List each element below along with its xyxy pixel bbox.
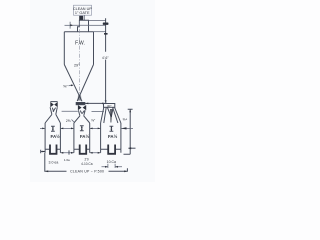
svg-text:29°: 29° bbox=[74, 63, 80, 67]
hopper 3 tent roof bbox=[101, 107, 121, 123]
svg-text:FA½: FA½ bbox=[80, 134, 90, 139]
lower dim row y152.8 bbox=[41, 150, 46, 153]
hopper 1 bottom slot bbox=[45, 148, 60, 150]
gate neck outline bbox=[79, 20, 88, 32]
leader from label to gate bbox=[83, 15, 85, 20]
hopper 1 neck bbox=[50, 107, 57, 114]
right dim column at h3 bbox=[124, 109, 133, 154]
discharge box under cone bbox=[76, 102, 85, 105]
gap note h2-h3 bbox=[92, 110, 105, 112]
left dim line at neck bbox=[65, 24, 71, 26]
hopper 1 valve bowtie bbox=[50, 101, 57, 103]
right dim vertical bbox=[105, 18, 107, 103]
svg-text:4'-6": 4'-6" bbox=[102, 56, 109, 60]
hopper 2 depth dim bbox=[80, 126, 84, 131]
svg-text:10.Ca: 10.Ca bbox=[107, 160, 116, 164]
gap note h1-h2 bbox=[62, 110, 78, 112]
svg-text:2⅝: 2⅝ bbox=[66, 119, 71, 123]
hopper 3 center V bbox=[107, 107, 113, 117]
hopper 3 feed stub bbox=[105, 100, 107, 104]
hopper 3 box 30 deg bbox=[104, 104, 115, 108]
hopper 3 depth dim bbox=[110, 126, 114, 131]
hopper 2 valve bowtie bbox=[78, 105, 86, 110]
vessel body F.W. bbox=[64, 32, 93, 65]
collar step bbox=[78, 27, 80, 32]
gate plug (dark) bbox=[79, 16, 83, 20]
svg-text:4-10.Ca: 4-10.Ca bbox=[81, 162, 93, 166]
svg-text:FA½: FA½ bbox=[51, 134, 61, 139]
svg-text:F.W.: F.W. bbox=[75, 40, 85, 46]
cone tip blob bbox=[78, 95, 82, 100]
svg-text:⅜+: ⅜+ bbox=[122, 117, 127, 121]
hopper 1 shoulders bbox=[45, 114, 60, 123]
hopper 2 shoulders bbox=[74, 116, 90, 123]
svg-text:1.6a: 1.6a bbox=[64, 158, 70, 162]
overall bottom dim bbox=[45, 153, 128, 172]
svg-text:3.0 ea: 3.0 ea bbox=[49, 161, 59, 165]
svg-text:CLEAN UP ~ P.500: CLEAN UP ~ P.500 bbox=[70, 170, 104, 174]
svg-text:1" GATE: 1" GATE bbox=[75, 11, 90, 15]
hopper 2 neck bbox=[78, 110, 85, 116]
slot dim under h3 bbox=[102, 164, 123, 168]
svg-text:⅝": ⅝" bbox=[63, 83, 68, 88]
vessel cone bbox=[64, 65, 93, 102]
hopper 2 body bbox=[74, 123, 90, 149]
hopper 3 bottom slot bbox=[101, 148, 121, 150]
label box CLEAN UP 1" GATE bbox=[74, 5, 92, 15]
hopper 1 depth dim bbox=[51, 126, 55, 131]
svg-text:FA½: FA½ bbox=[108, 134, 118, 139]
centerline bbox=[79, 21, 81, 95]
hopper 2 bottom slot bbox=[74, 148, 90, 150]
dim cross blob bbox=[103, 23, 109, 25]
hopper 3 body bbox=[101, 123, 121, 149]
right dim ext lines bbox=[89, 19, 106, 21]
leader to hopper 3 bbox=[85, 102, 106, 104]
hopper 1 body bbox=[45, 123, 60, 149]
svg-text:2'0: 2'0 bbox=[85, 157, 89, 161]
mid dim row y128.4 bbox=[40, 127, 133, 129]
